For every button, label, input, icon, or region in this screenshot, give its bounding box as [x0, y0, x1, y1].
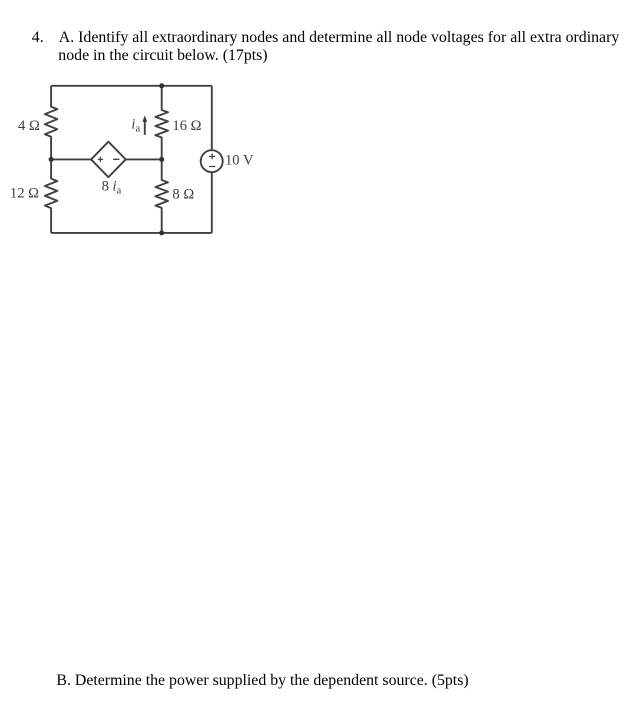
- svg-text:8 Ω: 8 Ω: [172, 186, 194, 202]
- svg-text:ia: ia: [131, 117, 140, 135]
- svg-text:12 Ω: 12 Ω: [10, 185, 39, 201]
- svg-text:4 Ω: 4 Ω: [18, 118, 40, 134]
- svg-text:10 V: 10 V: [225, 153, 254, 169]
- svg-text:8 ia: 8 ia: [102, 179, 122, 197]
- svg-text:16 Ω: 16 Ω: [172, 118, 201, 134]
